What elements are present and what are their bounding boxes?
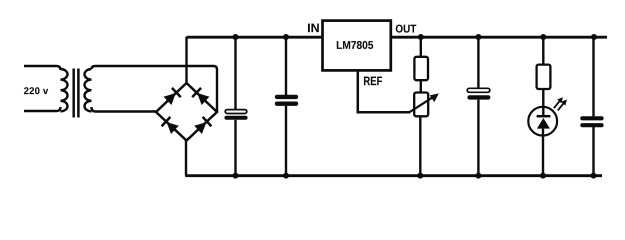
- label 220 v: [24, 87, 48, 94]
- capacitor C2 plates: [275, 95, 298, 106]
- junction dots ground rail: [233, 173, 597, 179]
- wire: REF pin down and right to wiper: [358, 71, 410, 113]
- LED D5 circle: [528, 107, 557, 136]
- junction dots top rail: [233, 34, 598, 40]
- label OUT: [396, 25, 416, 33]
- wire: bridge top vertex up to positive rail: [185, 37, 187, 83]
- capacitor C1 top lead: [234, 37, 236, 110]
- wire: secondary top to bridge right corner: [92, 66, 218, 112]
- wire: secondary bottom to bridge left vertex: [92, 107, 157, 112]
- wire: rail down to resistor R2: [542, 37, 544, 65]
- transformer T1 core: [74, 69, 79, 118]
- capacitor C4 bottom lead: [592, 127, 594, 176]
- bridge rectifier diamond edges: [156, 83, 217, 141]
- capacitor C4 plates: [580, 116, 603, 127]
- capacitor C3 bottom lead: [477, 100, 479, 176]
- wire: R2 to LED D5: [542, 89, 544, 115]
- label IN: [308, 24, 319, 33]
- bridge diode D2 (upper-left, points to top vertex): [163, 88, 181, 106]
- resistor R2 body: [537, 65, 551, 89]
- transformer T1 secondary coil: [85, 69, 92, 111]
- wire: LED D5 to ground rail: [542, 129, 544, 176]
- capacitor C1 bottom lead: [234, 120, 236, 176]
- label LM7805: [337, 41, 373, 49]
- bridge diode D1 (lower-left, points to left vertex): [162, 117, 180, 135]
- capacitor C2 bottom lead: [285, 106, 287, 176]
- bridge diode D4 (upper-right, points to top vertex): [192, 88, 210, 106]
- wire: potentiometer P1 to ground rail: [419, 116, 421, 175]
- bridge diode D3 (lower-right, points to right vertex): [194, 117, 212, 135]
- LM7805 regulator box U1: [323, 21, 391, 71]
- capacitor C2 top lead: [285, 37, 287, 95]
- resistor R1 body: [414, 57, 428, 80]
- wire: 220V line bottom: [24, 107, 61, 111]
- top rail (+) from bridge to regulator IN: [187, 36, 323, 39]
- capacitor C3 top lead: [477, 37, 479, 88]
- capacitor C1 plates (electrolytic): [224, 110, 247, 120]
- LED D5 internal diode (cathode bar on top, triangle): [537, 116, 551, 128]
- capacitor C3 plates (electrolytic): [467, 88, 490, 99]
- capacitor C4 top lead: [592, 37, 594, 116]
- wire: 220V line top: [24, 66, 61, 70]
- wire: OUT dot down to resistor R1: [420, 37, 422, 57]
- wire: R1 to potentiometer P1: [420, 80, 422, 93]
- transformer T1 primary coil: [61, 69, 68, 111]
- top rail (+) from regulator OUT to right end: [391, 36, 607, 39]
- potentiometer P1 wiper arrow: [409, 93, 439, 112]
- potentiometer P1 body: [414, 93, 428, 117]
- ground rail: [185, 174, 602, 177]
- wire: bridge bottom vertex down to ground rail: [185, 141, 187, 176]
- label REF: [364, 77, 382, 86]
- LED D5 light emission arrows: [554, 101, 564, 111]
